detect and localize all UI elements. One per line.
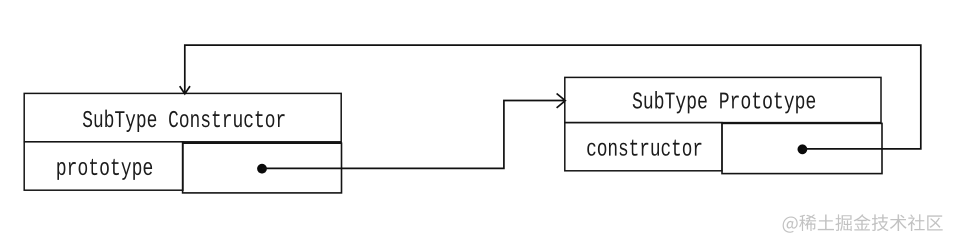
SubType Prototype box: constructor value cell <box>722 123 882 173</box>
label: prototype <box>57 159 152 180</box>
node dot: constructor pointer origin <box>798 144 808 154</box>
SubType Constructor box: title cell <box>24 93 341 141</box>
label: SubType Prototype <box>633 91 815 113</box>
SubType Constructor box: prototype key cell <box>24 142 183 190</box>
wire from constructor dot around top to SubType Constructor <box>185 45 921 149</box>
watermark @稀土掘金技术社区 <box>783 214 943 233</box>
arrowhead into SubType Prototype left edge <box>557 94 566 108</box>
label: constructor <box>587 140 701 156</box>
SubType Constructor box: prototype value cell <box>183 143 342 193</box>
node dot: prototype pointer origin <box>257 164 267 174</box>
wire from prototype dot to SubType Prototype <box>262 101 564 169</box>
SubType Prototype box: title cell <box>565 77 881 122</box>
arrowhead into SubType Constructor top edge <box>180 86 190 94</box>
label: SubType Constructor <box>83 110 285 132</box>
SubType Prototype box: constructor key cell <box>565 123 722 171</box>
